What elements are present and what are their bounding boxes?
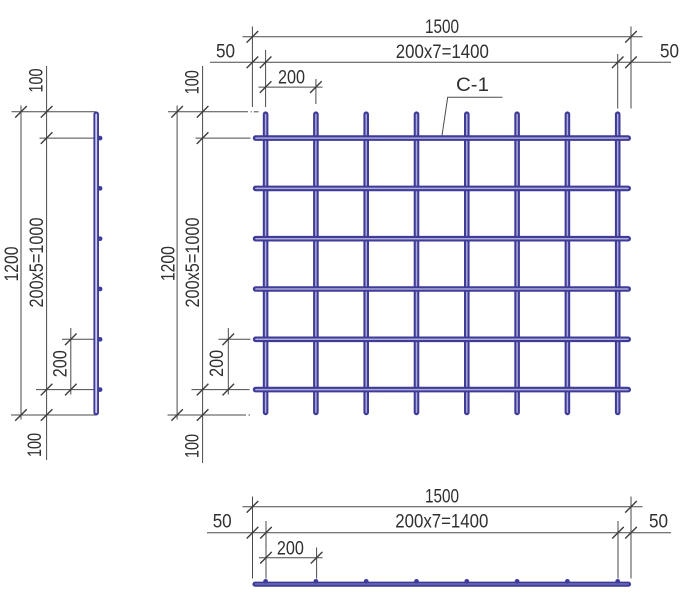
tick mark 1400 bottom right xyxy=(612,527,624,539)
dimension line 1500 (top) xyxy=(243,36,643,38)
extension dash-dot at top of first vertical bar xyxy=(251,111,252,113)
svg-text:1500: 1500 xyxy=(425,487,459,508)
tick mark 100 plan top outer xyxy=(197,106,209,118)
horizontal bar 3 (plan view) xyxy=(256,236,629,242)
cross wire end dot 4 (left side view) xyxy=(98,287,103,292)
vertical bar end dot 5 (bottom view) xyxy=(464,579,469,584)
horizontal bar 5 (plan view) xyxy=(256,336,629,342)
leader line for mesh label C-1 xyxy=(442,97,503,135)
tick mark 1000 plan top xyxy=(197,132,209,144)
tick mark 200 top right xyxy=(310,81,322,93)
svg-text:100: 100 xyxy=(182,434,203,458)
horizontal bar 4 (plan view) xyxy=(256,286,629,292)
svg-text:200x5=1000: 200x5=1000 xyxy=(183,218,204,308)
vertical bar end dot 4 (bottom view) xyxy=(414,579,419,584)
svg-text:1200: 1200 xyxy=(2,247,23,282)
vertical bar 1 (plan view) xyxy=(263,114,269,412)
tick mark 1200 plan top xyxy=(171,106,183,118)
dimension line 1200 (plan view) xyxy=(176,106,178,420)
vertical bar 8 (plan view) xyxy=(615,114,621,412)
extension line fifth cross wire (left view) xyxy=(62,338,94,340)
tick mark 1000 plan bottom xyxy=(197,384,209,396)
cross wire end dot 2 (left side view) xyxy=(98,186,103,191)
tick mark 1000 left-view bottom xyxy=(41,384,53,396)
dimension line 1200 (left view) xyxy=(20,106,22,420)
tick mark 200 top left xyxy=(260,81,272,93)
svg-text:200: 200 xyxy=(277,538,304,559)
extension line first horizontal bar (plan view) xyxy=(196,137,251,139)
extension dot at bottom of first vertical bar xyxy=(249,414,251,416)
dimension line 200x7=1400 (bottom view) xyxy=(207,532,671,534)
tick mark 1500 bottom right xyxy=(625,501,637,513)
svg-text:100: 100 xyxy=(25,433,46,457)
extension line left end of 1500 (top) xyxy=(251,27,253,108)
extension line fifth horizontal bar (plan view) xyxy=(219,338,251,340)
tick mark 1400 top right xyxy=(612,57,624,69)
vertical bar end dot 3 (bottom view) xyxy=(364,579,369,584)
dimension line 200 (top) xyxy=(259,86,323,88)
tick mark 200 bottom right xyxy=(311,552,323,564)
dimension line 1500 (bottom view) xyxy=(243,506,643,508)
tick mark 1000 left-view top xyxy=(41,132,53,144)
dimension line 200 (left view) xyxy=(70,328,72,395)
tick mark 100 plan bottom outer xyxy=(197,409,209,421)
horizontal bar 6 (plan view) xyxy=(256,387,629,393)
tick mark 200 left-view lower xyxy=(65,384,77,396)
dimension line 200x5=1000 with 100 ends (left view) xyxy=(46,66,48,460)
mesh bar (bottom view) xyxy=(255,581,629,586)
extension line bottom of vertical bars (plan view) xyxy=(168,414,247,416)
svg-text:200x7=1400: 200x7=1400 xyxy=(396,42,489,63)
svg-text:50: 50 xyxy=(649,511,668,532)
tick mark 100 left-view top outer xyxy=(41,106,53,118)
dimension line 200 (plan view) xyxy=(227,328,229,395)
tick mark 1200 plan bottom xyxy=(171,409,183,421)
extension line first bar (bottom view) xyxy=(265,521,267,579)
vertical bar end dot 8 (bottom view) xyxy=(615,579,620,584)
svg-text:1200: 1200 xyxy=(159,246,180,281)
svg-text:50: 50 xyxy=(213,511,232,532)
dimension line 200x7=1400 (top) xyxy=(210,61,671,63)
tick mark 1500 bottom left xyxy=(247,501,259,513)
tick mark 200 plan lower xyxy=(223,384,235,396)
vertical bar 2 (plan view) xyxy=(313,114,319,412)
cross wire end dot 6 (left side view) xyxy=(98,387,103,392)
extension line right end of 1500 (top) xyxy=(630,27,632,109)
extension line last cross wire (left view) xyxy=(36,389,94,391)
tick mark 50 top right outer xyxy=(625,57,637,69)
vertical bar 7 (plan view) xyxy=(565,114,571,412)
extension line second bar (bottom view) xyxy=(316,548,318,579)
vertical bar 6 (plan view) xyxy=(514,114,520,412)
tick mark 100 left-view bottom outer xyxy=(41,409,53,421)
svg-text:200x5=1000: 200x5=1000 xyxy=(27,218,48,308)
svg-text:1500: 1500 xyxy=(425,17,459,38)
extension line second vertical bar (top) xyxy=(315,79,317,104)
tick mark 50 top left outer xyxy=(247,57,259,69)
tick mark 1200 left-view top xyxy=(15,106,27,118)
vertical bar 3 (plan view) xyxy=(363,114,369,412)
svg-text:200: 200 xyxy=(278,67,305,88)
extension line last vertical bar (top) xyxy=(617,54,619,109)
tick mark 1500 top right xyxy=(625,31,637,43)
svg-text:50: 50 xyxy=(660,41,679,62)
mesh bar (left side view) xyxy=(93,114,99,412)
tick mark 200 bottom left xyxy=(260,552,272,564)
extension line last bar (bottom view) xyxy=(617,521,619,579)
svg-text:200x7=1400: 200x7=1400 xyxy=(395,512,488,533)
extension line last horizontal bar (plan view) xyxy=(192,389,250,391)
horizontal bar 1 (plan view) xyxy=(256,135,629,141)
extension line top of vertical bars (plan view) xyxy=(168,111,248,113)
horizontal bar 2 (plan view) xyxy=(256,186,629,192)
dimension line 200 (bottom view) xyxy=(259,557,323,559)
svg-text:200: 200 xyxy=(207,350,228,377)
extension line first cross wire (left view) xyxy=(40,137,98,139)
svg-text:200: 200 xyxy=(51,350,72,377)
tick mark 1400 bottom left xyxy=(260,527,272,539)
extension line right end (bottom view) xyxy=(630,497,632,579)
tick mark 1400 top left xyxy=(260,57,272,69)
cross wire end dot 3 (left side view) xyxy=(98,236,103,241)
tick mark 200 plan upper xyxy=(223,334,235,346)
svg-text:50: 50 xyxy=(216,41,235,62)
extension line top of bar (left view) xyxy=(12,111,96,113)
dimension line 200x5=1000 with 100 ends (plan view) xyxy=(202,66,204,463)
vertical bar 4 (plan view) xyxy=(414,114,420,412)
extension line first vertical bar (top) xyxy=(265,50,267,107)
tick mark 1500 top left xyxy=(247,31,259,43)
svg-text:С-1: С-1 xyxy=(456,75,489,96)
cross wire end dot 1 (left side view) xyxy=(98,136,103,141)
tick mark 50 bottom right outer xyxy=(625,527,637,539)
vertical bar 5 (plan view) xyxy=(464,114,470,412)
vertical bar end dot 7 (bottom view) xyxy=(565,579,570,584)
cross wire end dot 5 (left side view) xyxy=(98,337,103,342)
vertical bar end dot 6 (bottom view) xyxy=(515,579,520,584)
vertical bar end dot 1 (bottom view) xyxy=(263,579,268,584)
tick mark 200 left-view upper xyxy=(65,334,77,346)
extension line left end (bottom view) xyxy=(252,497,254,579)
tick mark 50 bottom left outer xyxy=(247,527,259,539)
tick mark 1200 left-view bottom xyxy=(15,409,27,421)
vertical bar end dot 2 (bottom view) xyxy=(314,579,319,584)
extension line bottom of bar (left view) xyxy=(11,414,97,416)
svg-text:100: 100 xyxy=(182,70,203,94)
svg-text:100: 100 xyxy=(27,69,48,93)
